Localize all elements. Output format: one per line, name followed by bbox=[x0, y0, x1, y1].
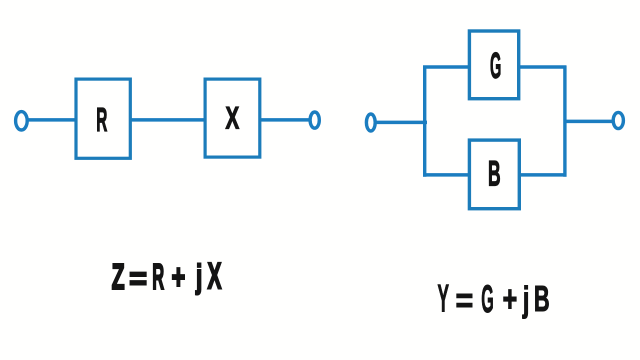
conductance box G bbox=[469, 31, 518, 99]
susceptance box B bbox=[469, 140, 519, 209]
formula Y = G + j B bbox=[438, 277, 550, 321]
terminal T3 (left input of parallel Y circuit) bbox=[366, 114, 375, 131]
wire right bus to T4 bbox=[564, 120, 613, 124]
svg-text:X: X bbox=[226, 100, 240, 135]
reactance box X bbox=[205, 79, 260, 157]
bottom rail wire to B bbox=[423, 173, 567, 177]
wire R box to X box bbox=[130, 118, 206, 122]
svg-text:X: X bbox=[208, 256, 222, 297]
formula Z = R + j X bbox=[112, 256, 222, 298]
wire T3 to left bus bbox=[376, 121, 427, 125]
svg-text:Y: Y bbox=[438, 278, 450, 321]
svg-text:j: j bbox=[522, 279, 529, 319]
svg-text:R: R bbox=[152, 257, 164, 297]
svg-text:Z: Z bbox=[112, 257, 125, 297]
svg-text:G: G bbox=[481, 277, 494, 321]
right bus (vertical junction wire) bbox=[563, 66, 566, 177]
svg-text:j: j bbox=[195, 259, 202, 296]
terminal T4 (right output of parallel Y circuit) bbox=[613, 112, 623, 128]
terminal T1 (left input of series Z circuit) bbox=[16, 112, 28, 130]
svg-text:R: R bbox=[96, 101, 107, 138]
terminal T2 (right output of series Z circuit) bbox=[310, 112, 319, 128]
left bus (vertical junction wire) bbox=[423, 66, 426, 177]
svg-text:=: = bbox=[456, 282, 474, 320]
resistor box R bbox=[76, 79, 130, 158]
svg-text:B: B bbox=[488, 155, 501, 194]
svg-text:+: + bbox=[503, 278, 518, 319]
wire T1 to R box bbox=[27, 118, 77, 122]
svg-text:+: + bbox=[172, 258, 186, 297]
svg-text:B: B bbox=[534, 278, 550, 319]
top rail wire to G bbox=[423, 65, 567, 69]
svg-text:G: G bbox=[490, 46, 501, 86]
wire X box to T2 bbox=[260, 118, 310, 122]
svg-text:=: = bbox=[129, 261, 147, 296]
